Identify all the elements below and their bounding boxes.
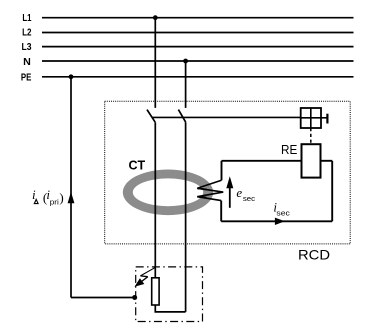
svg-text:L1: L1 bbox=[22, 13, 31, 24]
wire trip linkage bbox=[152, 116, 301, 118]
arrow i_delta bbox=[68, 192, 75, 203]
fault arrow bbox=[135, 268, 155, 287]
wire N branch lower bbox=[185, 122, 187, 312]
wire L3 bus bbox=[42, 46, 354, 48]
RCD enclosure dotted box bbox=[105, 101, 351, 244]
svg-text:sec: sec bbox=[243, 194, 255, 203]
svg-text:L3: L3 bbox=[22, 42, 32, 53]
resistor load bbox=[152, 278, 159, 305]
winding zigzag bbox=[197, 180, 223, 200]
wire PE down bbox=[70, 77, 72, 298]
svg-text:i: i bbox=[32, 187, 36, 202]
relay RE box bbox=[302, 144, 321, 177]
dashed link mech to RE bbox=[310, 128, 312, 144]
node PE tap bbox=[69, 74, 74, 79]
wire secondary upper stub bbox=[221, 161, 223, 181]
svg-text:RE: RE bbox=[281, 143, 297, 157]
wire L1 branch upper bbox=[154, 18, 156, 108]
label i_delta (i_pri) bbox=[32, 187, 64, 207]
switch S2 blade bbox=[178, 110, 185, 123]
trip mechanism box bbox=[301, 108, 321, 128]
wire L1 bus bbox=[42, 17, 354, 19]
node L1 tap bbox=[153, 15, 158, 20]
wire secondary lower stub bbox=[220, 201, 222, 222]
CT toroid core bbox=[123, 170, 213, 216]
svg-text:PE: PE bbox=[21, 72, 32, 83]
wire PE to appliance bbox=[71, 297, 135, 299]
arrow e_sec bbox=[226, 176, 233, 208]
switch S1 blade bbox=[147, 110, 155, 123]
svg-text:L2: L2 bbox=[22, 28, 32, 39]
arrow i_sec bbox=[275, 218, 285, 225]
wire L2 bus bbox=[42, 32, 354, 34]
wire resistor bottom bbox=[155, 305, 185, 312]
wire RE to right corner bbox=[321, 160, 333, 162]
wire secondary loop top bbox=[222, 160, 302, 162]
wire PE bus bbox=[42, 76, 354, 78]
svg-text:sec: sec bbox=[276, 209, 290, 218]
test actuator bbox=[321, 114, 327, 124]
node PE appliance frame bbox=[132, 295, 137, 300]
wire secondary loop bottom bbox=[221, 220, 332, 222]
svg-text:e: e bbox=[236, 185, 242, 200]
svg-text:RCD: RCD bbox=[298, 246, 330, 262]
node N tap bbox=[183, 59, 188, 64]
svg-text:CT: CT bbox=[129, 158, 146, 172]
wire N bus bbox=[42, 60, 354, 62]
wire N branch upper bbox=[185, 61, 187, 108]
wire secondary loop right bbox=[331, 161, 333, 222]
svg-text:): ) bbox=[59, 190, 63, 205]
appliance dash-dot box bbox=[136, 267, 203, 322]
wire L1 branch lower bbox=[154, 122, 156, 278]
svg-text:pri: pri bbox=[50, 197, 59, 206]
svg-text:N: N bbox=[23, 57, 31, 68]
